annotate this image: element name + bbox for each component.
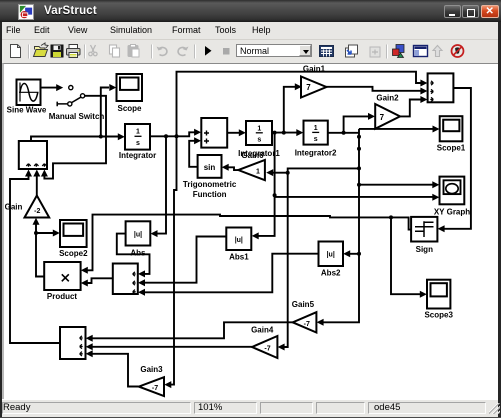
wire Gain1 output to Mux input 2 [325, 87, 421, 91]
wire Manual Switch output to vertical mux input 3 [44, 96, 106, 179]
wire Abs2 output to Mux3 input 3 [144, 254, 318, 293]
block Gain6 pointing left [238, 160, 265, 180]
title bar [0, 0, 501, 22]
toolbar icon New [11, 45, 21, 58]
wire Integrator2 output [328, 132, 359, 134]
block Mux (3 left inputs) [428, 73, 454, 102]
wire Product output to Gain input [36, 221, 44, 277]
toolbar separator [151, 45, 153, 59]
toolbar icon Paste disabled [128, 46, 138, 57]
block Gain2 pointing right [375, 104, 400, 129]
wire junction to Scope [101, 88, 109, 136]
block Gain5 pointing left [293, 312, 317, 332]
block Integrator1 [246, 121, 272, 145]
block bottom mux (3 right inputs) [60, 327, 86, 359]
toolbar icon build [346, 48, 355, 57]
block Gain4 pointing left [252, 336, 277, 358]
block Abs2 [319, 242, 344, 267]
wire Gain output to vertical mux input 2 [36, 172, 38, 196]
block Sum [201, 118, 227, 148]
wire Mux3 output to Product input 2 [87, 278, 113, 283]
wire Integrator2 net vertical trunk [323, 129, 359, 322]
Simulink model window icon [18, 4, 34, 20]
toolbar icon Debug [452, 45, 464, 57]
wire branch to Abs input [157, 136, 166, 233]
wire Integrator1 output to Integrator2 [272, 132, 297, 134]
wire Gain6 output to Trigonometric Function [228, 167, 238, 170]
wire Sum output to Integrator1 [227, 132, 239, 134]
wire Mux output to Sign input [444, 88, 471, 229]
toolbar icon Stop disabled [223, 48, 230, 55]
wire branch to Scope1 [359, 128, 433, 130]
block vertical mux (3 bottom inputs) [19, 141, 47, 169]
toolbar icon Model Browser [414, 46, 428, 57]
status bar [2, 399, 498, 416]
block Mux3 (3 right inputs) [113, 264, 138, 295]
block Scope2 [60, 220, 87, 247]
toolbar icon Copy disabled [110, 45, 117, 54]
wire vertical mux output to Integrator [31, 137, 118, 142]
wire Trigonometric Function output to Sum input 2 [189, 141, 197, 167]
wire Gain3 output to bottom mux input 3 [92, 354, 139, 387]
manual switch symbol [69, 86, 73, 90]
wire branch down to Gain3 input [171, 136, 177, 384]
wire branch down to Abs1 input [258, 133, 275, 236]
block Gain3 pointing left [139, 377, 164, 396]
wire Gain5 output to bottom mux input 1 [92, 322, 293, 338]
toolbar icon disabled build [370, 47, 380, 57]
wire Gain4 output to bottom mux input 2 [92, 346, 252, 348]
toolbar icon go to parent disabled [433, 46, 442, 57]
toolbar separator [386, 45, 388, 59]
wire branch to Gain1 input [284, 87, 295, 133]
block Scope1 [440, 116, 463, 141]
canvas [2, 63, 498, 399]
wire Gain2 output to Mux input 3 [400, 100, 421, 117]
toolbar icon Undo disabled [159, 47, 167, 55]
block Sign [411, 217, 437, 242]
block Integrator2 [304, 121, 328, 145]
wire Sign output to Product input 1 [87, 215, 411, 271]
wire branch top to Mux input 1 [177, 72, 422, 137]
block Scope [117, 74, 143, 101]
block Scope3 [427, 280, 450, 309]
wire Abs output to Mux3 input 1 [117, 234, 150, 274]
toolbar icon Save [51, 45, 63, 57]
wire Sine Wave output [41, 87, 58, 89]
block XY Graph [440, 177, 465, 205]
toolbar separator [28, 45, 30, 59]
wire branch to Gain2 input [344, 116, 369, 132]
block Abs [126, 221, 151, 245]
wire Integrator output to Sum input 1 [150, 132, 195, 136]
wire bottom mux output to vertical mux input 1 [10, 172, 60, 343]
toolbar separator [194, 45, 196, 59]
block Abs1 [226, 228, 251, 251]
toolbar icon Start simulation [205, 46, 212, 56]
toolbar [0, 41, 501, 63]
wire branch to Scope2 [36, 232, 54, 234]
toolbar separator [84, 45, 86, 59]
wire branch to Scope3 [391, 217, 421, 294]
toolbar icon Cut disabled [91, 45, 96, 52]
toolbar icon incremental build [320, 46, 334, 57]
block Product [44, 262, 80, 290]
block Gain1 pointing right [301, 77, 326, 98]
block Integrator [125, 124, 150, 150]
toolbar icon Redo disabled [178, 47, 186, 55]
toolbar icon Open [35, 47, 46, 50]
menu bar [0, 22, 501, 40]
wire Abs1 output to Mux3 input 2 [144, 237, 226, 283]
toolbar icon Library Browser [396, 45, 404, 53]
block Sine Wave [17, 80, 41, 106]
block Trigonometric Function sin [198, 155, 222, 178]
wire branch to XY Graph input 1 [359, 184, 433, 186]
wire branch to XY Graph input 2 [275, 196, 433, 198]
wire branch to Abs2 input [350, 253, 360, 255]
block Gain (-2) pointing up [25, 196, 50, 218]
toolbar icon Print [67, 49, 81, 56]
wire branch to Gain6 and Gain4 [284, 168, 359, 347]
